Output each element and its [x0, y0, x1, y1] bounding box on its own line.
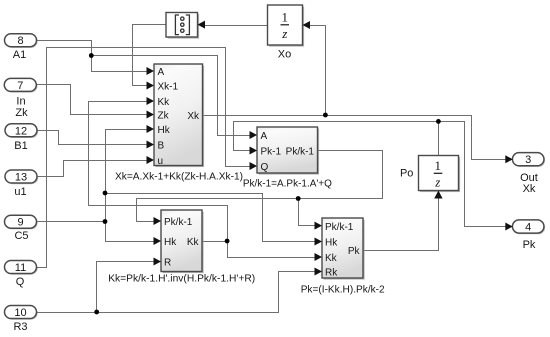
Xo fraction 1 [282, 10, 289, 25]
svg-text:Hk: Hk [164, 237, 177, 248]
wire port11 Q to block2 Q input [37, 48, 251, 268]
Xo fraction bar [281, 24, 290, 26]
wire port13 u1 to block1 u input [37, 161, 148, 177]
block4 input label Kk [325, 253, 338, 264]
block2 input arrows [250, 131, 258, 170]
wire unitdelay Po output to block2 Pk-1 input [234, 122, 439, 156]
subsystem block2 Pk/k-1 predictor [257, 127, 319, 175]
subsystem block1 Xk estimator [154, 64, 204, 167]
input port 10 [5, 306, 38, 320]
junction dot R3 [94, 310, 99, 315]
block4 input label Rk [325, 268, 338, 279]
svg-text:Pk/k-1: Pk/k-1 [164, 217, 193, 228]
svg-text:Kk: Kk [187, 237, 200, 248]
block1 input label u [158, 156, 164, 167]
block3 name label [108, 273, 255, 285]
port 3 label Out [520, 172, 538, 184]
junction dot Xk [323, 113, 328, 118]
svg-text:Xk-1: Xk-1 [158, 82, 179, 93]
display block left bracket [175, 15, 179, 35]
block1 input label B [158, 141, 165, 152]
input port 13 [5, 170, 38, 184]
svg-text:1: 1 [435, 158, 442, 173]
port 4 number [525, 222, 531, 234]
wire block3 Kk output feedback to block1 Kk input [89, 102, 228, 242]
port 3 arrow [505, 155, 513, 163]
svg-text:8: 8 [17, 35, 23, 47]
port 9 number [17, 217, 23, 229]
input port 9 [5, 215, 38, 229]
block1 input arrows [147, 67, 155, 164]
svg-text:B1: B1 [14, 140, 27, 152]
Po fraction bar [434, 172, 443, 174]
block4 input label Hk [325, 238, 338, 249]
svg-text:7: 7 [17, 80, 23, 92]
port 4 label Pk [523, 239, 536, 251]
svg-text:Zk: Zk [158, 111, 170, 122]
svg-text:u1: u1 [14, 186, 26, 198]
block1 input label Kk [158, 97, 171, 108]
block1 input label Hk [158, 125, 171, 136]
block4 input arrows [315, 222, 323, 276]
subsystem block3 Kk gain [161, 210, 204, 273]
port 11 label Q [16, 276, 25, 288]
wire block4 Pk output to unitdelay Po input [364, 197, 439, 251]
junction dot Kk [225, 239, 230, 244]
wire port10 R3 to block3 R input [37, 262, 155, 313]
svg-text:10: 10 [14, 307, 26, 319]
input port 7 [4, 78, 37, 92]
svg-text:C5: C5 [14, 230, 28, 242]
block4 name label [301, 283, 385, 295]
svg-text:Xk=A.Xk-1+Kk(Zk-H.A.Xk-1): Xk=A.Xk-1+Kk(Zk-H.A.Xk-1) [115, 171, 243, 183]
svg-text:Pk: Pk [523, 239, 536, 251]
svg-text:Q: Q [261, 162, 269, 173]
Xo input arrow [303, 21, 311, 29]
block3 input label R [164, 258, 171, 269]
block2 input label Q [261, 162, 269, 173]
wire Xk branch up to unitdelay Xo input [310, 26, 326, 116]
junction dot C5 upper [103, 191, 108, 196]
svg-text:R: R [164, 258, 171, 269]
Po fraction z [434, 175, 440, 190]
input port 8 [5, 34, 38, 48]
junction dot Po output [436, 119, 441, 124]
Xo fraction z [281, 26, 287, 41]
block1 output label Xk [187, 111, 200, 122]
svg-text:R3: R3 [13, 321, 27, 333]
junction dot C5 lower [103, 219, 108, 224]
svg-text:Zk: Zk [15, 107, 28, 119]
svg-text:Xk: Xk [187, 111, 200, 122]
wire display block output to block1 Xk-1 input [133, 25, 167, 86]
wire port9 C5 to block1 Hk input [37, 130, 148, 222]
port 9 label C5 [14, 230, 28, 242]
svg-text:Kk: Kk [158, 97, 171, 108]
port 13 number [15, 172, 27, 184]
input port 12 [5, 124, 38, 138]
block4 output label Pk [348, 246, 361, 257]
port 3 label Xk [523, 183, 536, 195]
svg-text:Q: Q [16, 276, 25, 288]
svg-text:A: A [158, 67, 165, 78]
port 12 number [15, 125, 27, 137]
port 13 label u1 [14, 186, 26, 198]
port 11 number [15, 262, 26, 274]
block1 input label Xk-1 [158, 82, 179, 93]
block3 input arrows [154, 217, 162, 266]
svg-text:Kk=Pk/k-1.H'.inv(H.Pk/k-1.H'+R: Kk=Pk/k-1.H'.inv(H.Pk/k-1.H'+R) [108, 273, 255, 285]
svg-text:Pk=(I-Kk.H).Pk/k-2: Pk=(I-Kk.H).Pk/k-2 [301, 283, 385, 295]
svg-text:A: A [261, 131, 268, 142]
svg-text:Pk: Pk [348, 246, 361, 257]
wire A1 branch to block2 A input [92, 56, 251, 136]
wire C5 down branch to block3 Hk input [106, 222, 155, 242]
wire Po output branch to out port4 [439, 122, 506, 227]
port 8 label A1 [13, 49, 26, 61]
wire R3 branch to block4 Rk input [97, 272, 316, 313]
svg-text:u: u [158, 156, 164, 167]
port 10 number [14, 307, 26, 319]
display block dot 1 [181, 17, 184, 20]
svg-text:3: 3 [525, 154, 531, 166]
Po name label [400, 168, 413, 180]
display block input arrow [198, 21, 206, 29]
port 8 number [17, 35, 23, 47]
svg-text:B: B [158, 141, 165, 152]
block2 name label [243, 177, 332, 189]
svg-text:z: z [434, 175, 440, 190]
port 7 label In [16, 96, 25, 108]
wire port12 B1 to block1 B input [38, 131, 148, 145]
port 12 label B1 [14, 140, 27, 152]
block4 input label Pk/k-1 [325, 222, 354, 233]
Po fraction 1 [435, 158, 442, 173]
input port 11 [5, 261, 38, 275]
block1 input label Zk [158, 111, 170, 122]
svg-text:Hk: Hk [158, 125, 171, 136]
block2 input label Pk-1 [261, 147, 282, 158]
svg-text:Kk: Kk [325, 253, 338, 264]
block1 input label A [158, 67, 165, 78]
wire port7 Zk to block1 Zk input [37, 85, 148, 115]
Xo name label [278, 49, 291, 61]
junction dot A1 [89, 53, 94, 58]
svg-text:13: 13 [15, 172, 27, 184]
display block right bracket [186, 15, 190, 35]
svg-text:9: 9 [17, 217, 23, 229]
junction dot Pkk1 [296, 196, 301, 201]
port 3 number [525, 154, 531, 166]
block1 name label [115, 171, 243, 183]
block3 output label Kk [187, 237, 200, 248]
svg-text:Xk: Xk [523, 183, 536, 195]
block3 input label Pk/k-1 [164, 217, 193, 228]
block2 input label A [261, 131, 268, 142]
svg-text:Hk: Hk [325, 238, 338, 249]
wire block1 Xk output to out port3 [203, 116, 506, 160]
svg-text:Rk: Rk [325, 268, 338, 279]
port 4 arrow [505, 223, 513, 231]
svg-text:z: z [281, 26, 287, 41]
wire Pkk1 branch to block4 input [299, 199, 316, 226]
port 7 label Zk [15, 107, 28, 119]
port 7 number [17, 80, 23, 92]
svg-text:In: In [16, 96, 25, 108]
subsystem block4 Pk update [322, 218, 365, 280]
wire Kk branch to block4 Kk input [228, 242, 316, 258]
display block frame [166, 13, 199, 39]
svg-text:Pk/k-1: Pk/k-1 [325, 222, 354, 233]
svg-text:Po: Po [400, 168, 413, 180]
block2 output label Pk/k-1 [286, 147, 315, 158]
port 10 label R3 [13, 321, 27, 333]
svg-text:Pk-1: Pk-1 [261, 147, 282, 158]
display block dot 3 [181, 29, 184, 32]
wire port8 A1 to block1 A input [37, 41, 148, 72]
block3 input label Hk [164, 237, 177, 248]
wire block2 output loop down-left [137, 151, 383, 222]
svg-text:Pk/k-1=A.Pk-1.A'+Q: Pk/k-1=A.Pk-1.A'+Q [243, 177, 332, 189]
svg-text:Xo: Xo [278, 49, 291, 61]
wire unitdelay Xo output to display block [205, 25, 268, 27]
Po input arrow [434, 191, 442, 199]
svg-text:1: 1 [282, 10, 289, 25]
svg-text:4: 4 [525, 222, 531, 234]
unit delay block Po [419, 156, 461, 193]
unit delay block Xo [268, 5, 305, 47]
output port 3 [512, 153, 545, 167]
output port 4 [512, 220, 545, 234]
svg-text:A1: A1 [13, 49, 26, 61]
svg-text:12: 12 [15, 125, 27, 137]
wire C5 branch to block4 Hk input [106, 194, 316, 242]
svg-text:Pk/k-1: Pk/k-1 [286, 147, 315, 158]
display block dot 2 [181, 23, 184, 26]
svg-text:11: 11 [15, 262, 26, 274]
